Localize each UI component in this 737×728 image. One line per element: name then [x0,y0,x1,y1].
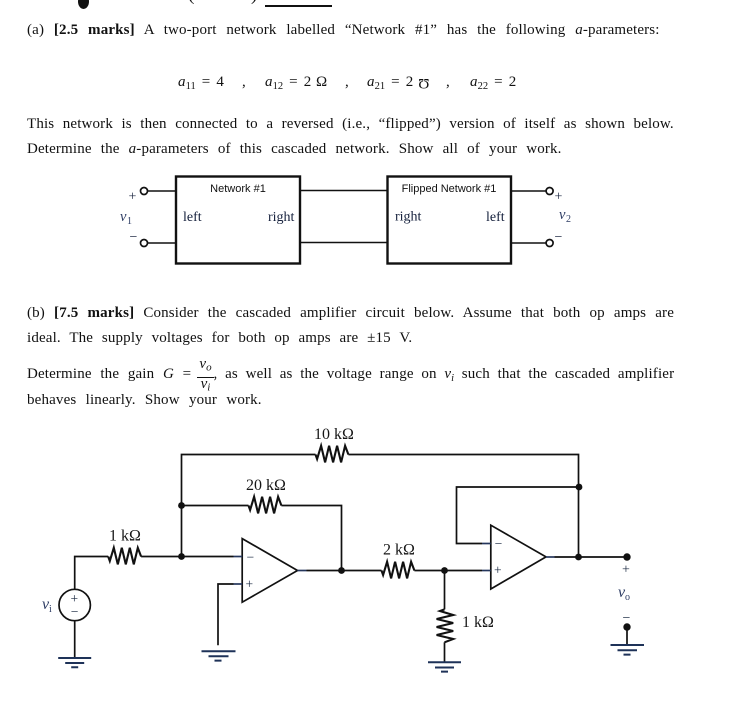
wire top-left [148,190,176,192]
wire: U1 + input to ground [218,584,234,645]
op-amp U2 [491,525,546,589]
terminal v2+ [546,188,553,195]
svg-text:i: i [49,604,52,615]
top cut-off fragments [0,0,737,9]
pin stub U2 non-inverting [482,570,491,572]
terminal v1+ [141,188,148,195]
svg-text:−: − [623,611,631,626]
svg-text:1 kΩ: 1 kΩ [109,528,141,545]
svg-text:1 kΩ: 1 kΩ [462,614,494,631]
terminal v1- [141,240,148,247]
svg-text:Network #1: Network #1 [210,183,266,195]
wire: input rail [75,557,234,590]
wire: U1 output [307,570,483,572]
svg-text:2 kΩ: 2 kΩ [383,542,415,559]
pin stub U1 inverting [234,556,243,558]
equation [178,74,224,92]
pin stub U1 non-inverting [234,583,243,585]
pin stub U1 output [298,570,307,572]
svg-text:+: + [494,563,502,578]
svg-text:1: 1 [127,216,132,227]
pin stub U2 inverting [482,543,491,545]
node: left rail input [178,553,185,560]
terminal v2- [546,240,553,247]
wire: vi to ground [74,621,76,658]
svg-text:left: left [486,210,505,225]
ground: vi source [58,658,91,667]
resistor 10k [316,446,349,463]
svg-text:2: 2 [566,214,571,225]
wire bottom middle [300,242,388,244]
svg-text:−: − [495,536,503,551]
pin stub U2 output [546,556,555,558]
resistor 2k [382,562,415,579]
terminal vo- [623,623,630,630]
node: 1k shunt tap [441,567,448,574]
resistor 1k input [108,548,141,565]
paragraph b [27,305,674,322]
line (a) [27,22,660,39]
terminal vo+ [623,553,630,560]
svg-text:20 kΩ: 20 kΩ [246,477,286,494]
paragraph a [27,116,674,133]
ground: 1k shunt [428,662,461,671]
ground: U1 + input [202,651,236,660]
node: U2 output [575,554,582,561]
wire: 1k shunt top [444,571,446,610]
wire: 10k top rail [182,455,579,558]
resistor 1k shunt [437,609,454,642]
svg-text:+: + [555,190,563,205]
wire: 20k rail [182,506,342,571]
svg-text:+: + [129,190,137,205]
svg-text:−: − [130,230,138,245]
svg-text:v: v [559,207,566,223]
svg-text:o: o [625,592,630,603]
svg-text:+: + [622,563,630,578]
svg-text:left: left [183,210,202,225]
op-amp U1 [242,539,297,603]
svg-text:−: − [71,604,79,619]
wire: 1k shunt bottom [444,642,446,662]
ground: vo [611,645,645,655]
node: U1 output [338,567,345,574]
network #1 box [176,177,300,264]
wire top-right [511,190,546,192]
node: feedback U2 [576,484,583,491]
wire: U2 feedback [457,487,580,544]
source vi [59,589,90,620]
wire: U2 output [555,556,628,558]
svg-text:10 kΩ: 10 kΩ [314,426,354,443]
svg-text:−: − [247,550,255,565]
svg-text:v: v [120,209,127,225]
svg-text:+: + [246,577,254,592]
wire bottom-left [148,242,176,244]
svg-text:−: − [555,230,563,245]
wire bottom-right [511,242,546,244]
node: left rail top [178,502,185,509]
two-port diagram [0,160,737,290]
resistor 20k [249,497,282,514]
wire: vo ground stub [626,627,628,645]
wire top middle [300,190,388,192]
svg-text:right: right [395,210,422,225]
svg-text:right: right [268,210,295,225]
svg-text:Flipped Network #1: Flipped Network #1 [402,183,497,195]
flipped network #1 box [388,177,512,264]
